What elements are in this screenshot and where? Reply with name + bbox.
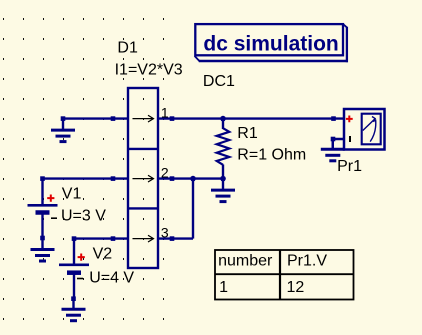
D1 left pin node squares [111,116,116,121]
V2 plus sign [78,254,85,261]
sim box shadow right [346,27,348,62]
D1 branch arrow 3 [133,235,154,242]
wire: V2 bottom pin to ground [73,274,75,299]
wire: R1 top pin [222,119,224,129]
voltmeter probe Pr1 [321,109,385,175]
svg-text:V1: V1 [62,185,82,202]
V2 corner node square [72,236,77,241]
svg-text:number: number [218,253,273,270]
svg-text:3: 3 [161,225,169,241]
V2 plate long [59,263,89,266]
V2 bottom node square [71,296,76,301]
wire: ground1 to D1 port1 left pin [63,117,128,119]
Pr1 needle arrowhead [372,117,375,123]
result table [215,250,354,300]
voltage source V2 [59,236,134,320]
resistor R1 zigzag [217,128,230,165]
junction dot R1 bottom [220,176,226,182]
sim box shadow bottom [199,60,348,63]
voltage source V1 [28,176,107,261]
Pr1 plus pin node square [331,116,336,121]
Pr1 plus mark [346,116,353,123]
junction dot R1 top [220,116,226,122]
sim box main rect [195,24,343,55]
svg-text:U=3 V: U=3 V [61,207,106,224]
svg-text:R=1 Ohm: R=1 Ohm [237,146,306,163]
table outer rect [215,250,354,300]
ground at Pr1 [321,138,345,161]
wire: D1 port2 right pin to R1 bottom junction [158,177,223,179]
svg-text:1: 1 [219,279,228,296]
wire: D1 port3 right pin horizontal [158,237,193,239]
svg-text:I1=V2*V3: I1=V2*V3 [115,62,183,79]
Pr1 meter arc [370,120,376,142]
sim box shadow diagonal bottom-left [195,56,200,61]
Pr1 body box [344,109,385,150]
V1 plate long [28,204,58,207]
svg-text:Pr1: Pr1 [337,158,362,175]
wire: D1 port1 right pin to Pr1 plus pin [158,117,343,119]
Pr1 minus mark (vertical tick) [349,136,351,142]
D1 section divider 1 [128,148,158,150]
V1 plus sign [47,195,54,202]
ground under V1 [31,238,55,261]
D1 section divider 2 [128,207,158,209]
Pr1 needle [363,119,375,131]
junction dot port3 tee [190,176,196,182]
V2 minus sign [77,278,83,280]
table column divider [279,250,281,300]
svg-text:dc simulation: dc simulation [203,33,338,56]
svg-text:12: 12 [287,279,305,296]
ground under V2 [62,298,86,321]
svg-text:DC1: DC1 [203,73,235,90]
svg-text:R1: R1 [237,125,258,142]
table row divider [215,273,354,275]
D1 right pin node squares [170,116,175,121]
wire: V2 top corner to D1 port3 left pin [74,237,128,239]
grid dots [3,18,164,320]
wire: R1 bottom pin [222,165,224,180]
Pr1 minus pin wire [333,139,344,149]
wire: V1 top corner to D1 port2 left pin [43,177,129,179]
wire: V1 bottom pin to ground [41,214,43,238]
node square: gnd1 junction [61,116,66,121]
D1 branch arrow 1 [133,115,154,122]
ground (top left, port1) [51,119,75,142]
sim box shadow diagonal top-right [343,24,347,28]
component D1 (EDD) body [128,88,158,268]
V1 minus sign [51,217,57,219]
svg-text:U=4 V: U=4 V [89,269,134,286]
V1 bottom node square [40,236,45,241]
svg-text:2: 2 [161,165,169,181]
V1 corner node square [40,176,45,181]
wire: V2 vertical top pin [73,238,75,265]
D1 branch arrow 2 [133,175,154,182]
ground under R1 [211,179,235,202]
V2 plate short thick [67,270,81,275]
wire: vertical from port3 up to port2 net [192,178,194,239]
V1 plate short thick [36,210,50,215]
Pr1 display rect [362,114,381,145]
svg-text:1: 1 [161,105,169,121]
dc simulation box [195,24,348,90]
svg-text:V2: V2 [93,245,113,262]
wire: V1 vertical top pin [41,178,43,206]
svg-text:Pr1.V: Pr1.V [287,253,327,270]
Pr1 minus pin node square [331,137,336,142]
svg-text:D1: D1 [117,39,138,56]
